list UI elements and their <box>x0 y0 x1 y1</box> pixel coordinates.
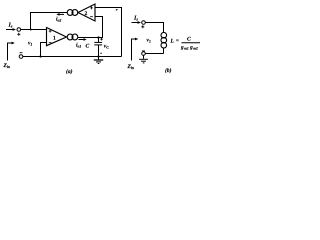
node bottom terminal (b) <box>142 52 146 56</box>
svg-text:C: C <box>86 44 90 50</box>
svg-text:(b): (b) <box>165 68 172 74</box>
svg-text:1: 1 <box>53 35 56 41</box>
node input terminal top (a) <box>17 28 21 32</box>
wire top (b) <box>145 23 163 33</box>
wire amp2 plus input to right riser <box>95 8 122 57</box>
svg-text:io2: io2 <box>56 17 61 23</box>
node input terminal (b) <box>142 21 146 25</box>
svg-text:=: = <box>176 39 179 44</box>
label plus vc <box>100 38 103 41</box>
node junction riser (a) <box>30 29 32 31</box>
svg-text:Zin: Zin <box>3 63 11 69</box>
svg-text:C: C <box>187 37 191 43</box>
norator double circle output amp2 <box>67 10 78 16</box>
label minus amp2 <box>90 16 93 18</box>
ground symbol (b) <box>139 55 148 63</box>
op-amp 1 triangle pointing right <box>47 28 67 46</box>
label minus of v1 (b) <box>142 50 145 52</box>
label plus amp2 <box>90 7 93 10</box>
svg-text:m2: m2 <box>193 46 198 50</box>
node dot cap top <box>97 36 99 38</box>
svg-text:(a): (a) <box>66 69 73 75</box>
wire ground rail bottom (a) <box>23 56 122 58</box>
svg-text:vC: vC <box>104 44 109 50</box>
node dot amp1 minus at rail <box>39 55 41 57</box>
wire amp1 output to cap node <box>78 37 99 39</box>
arrow io2 current <box>56 13 64 16</box>
wire amp1 minus to ground rail <box>41 43 47 57</box>
current source arrow Is (a) <box>6 28 16 31</box>
arrow Zin (b) <box>132 38 139 61</box>
svg-text:L: L <box>170 39 175 45</box>
wire riser up <box>31 13 68 30</box>
label minus of v1 (a) <box>20 52 23 54</box>
capacitor C <box>94 38 102 57</box>
svg-text:m1: m1 <box>184 46 189 50</box>
inductor L coil <box>161 32 167 53</box>
ground symbol (a) <box>94 57 103 64</box>
svg-text:Is: Is <box>8 23 13 29</box>
arrow Zin (a) <box>8 42 15 61</box>
label L equals formula <box>170 37 201 51</box>
svg-text:io1: io1 <box>76 43 81 49</box>
node dot ground tap <box>97 55 99 57</box>
label plus of v1 (a) <box>17 33 20 36</box>
wire amp2 minus input down to cap node <box>96 17 103 38</box>
op-amp 2 triangle pointing left <box>78 4 95 21</box>
stray mark <box>100 53 101 54</box>
svg-text:Zin: Zin <box>127 64 135 70</box>
stray tick mark <box>116 9 118 10</box>
svg-text:v1: v1 <box>28 41 32 47</box>
norator double circle output amp1 <box>67 34 78 40</box>
wire bottom (b) <box>146 53 164 55</box>
svg-text:v1: v1 <box>147 38 151 44</box>
current source arrow Is (b) <box>132 21 142 24</box>
label plus of v1 (b) <box>141 25 144 28</box>
label minus amp1 <box>49 42 52 44</box>
arrow io1 current <box>79 38 87 41</box>
wire main input to amp1 plus <box>21 29 47 31</box>
svg-text:Is: Is <box>133 16 138 22</box>
svg-text:2: 2 <box>85 11 88 17</box>
node bottom terminal (a) <box>19 55 23 59</box>
label plus amp1 <box>49 30 52 33</box>
